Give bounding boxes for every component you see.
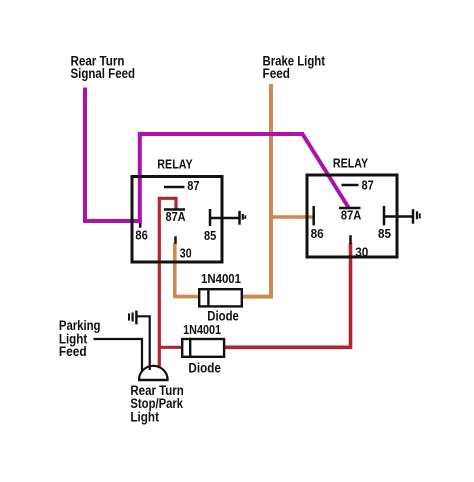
svg-text:1N4001: 1N4001 [183,323,221,337]
wire: orange from diode D1 left end up to left relay pin 30 [175,243,199,297]
right relay pin 87A bar [339,207,361,210]
lamp: rear turn stop/park light (dome) [138,366,169,380]
label: Parking Light Feed [59,318,101,359]
svg-text:87A: 87A [341,208,362,223]
label: Rear Turn Signal Feed [71,54,136,82]
label: Rear Turn Stop/Park Light [130,383,183,424]
left relay pin 87A bar [164,208,185,211]
ground (left relay pin 85) [240,211,246,225]
svg-text:Diode: Diode [207,308,239,323]
svg-text:86: 86 [135,228,147,243]
left relay U1 box [132,177,222,263]
ground (lamp) [129,311,136,325]
wire: orange brake light feed vertical + turn left to diode D1 [242,84,271,297]
label: Brake Light Feed [263,54,326,82]
wire: red from right relay pin 30 down and left to diode D2 right end [225,243,351,347]
right relay pin 85 tick [383,206,386,225]
wire: red junction to diode D2 left end [158,346,182,349]
right relay U2 box [307,175,397,257]
svg-text:87: 87 [362,178,374,193]
svg-text:Feed: Feed [59,344,87,359]
right relay pin 86 tick [312,206,315,225]
svg-text:Diode: Diode [188,360,221,375]
wire: red from left relay 87A down to lamp [159,198,176,368]
ground (right relay pin 85) [413,209,420,224]
right relay pin 30 tick [349,235,352,244]
svg-text:1N4001: 1N4001 [201,272,241,286]
svg-text:85: 85 [378,226,391,241]
svg-text:30: 30 [180,245,192,260]
diode D2 (1N4001, lower) box [182,338,224,358]
svg-text:RELAY: RELAY [157,157,193,172]
svg-text:Light: Light [130,409,159,424]
diode D1 (1N4001, upper) box [199,288,242,308]
svg-text:86: 86 [311,226,324,241]
left relay pin 86 tick [139,223,142,228]
svg-text:RELAY: RELAY [333,156,368,171]
wire: ground to lamp [137,316,150,370]
wire: magenta from left relay pin 86 up, right, diagonal to right relay 87A [140,134,349,224]
svg-text:87: 87 [187,178,199,193]
wire: orange branch to right relay pin 86 [270,215,315,219]
left relay pin 30 tick [174,236,177,243]
svg-text:85: 85 [204,228,216,243]
wire: left relay pin 85 to ground [210,217,240,220]
wire: parking light feed to lamp [94,339,143,371]
svg-text:Signal Feed: Signal Feed [71,66,136,81]
left relay pin 85 tick [209,209,212,226]
right relay pin 87 contact line [342,184,359,187]
svg-text:Feed: Feed [263,66,291,81]
wire: magenta rear turn signal feed down and right to left relay pin 86 [85,88,142,222]
wire: right relay pin 85 to ground [384,215,413,218]
left relay pin 87 contact line [164,186,185,189]
svg-text:30: 30 [355,244,368,259]
svg-text:87A: 87A [166,209,187,224]
